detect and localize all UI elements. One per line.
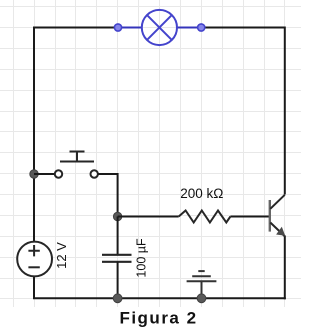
- plus sign: [28, 245, 39, 256]
- svg-text:Figura 2: Figura 2: [119, 309, 197, 328]
- svg-text:12 V: 12 V: [54, 242, 69, 269]
- wire: button right contact to capacitor branch corner: [98, 174, 118, 217]
- top plate: [102, 254, 132, 256]
- junction: left wire / push button tap: [30, 170, 38, 178]
- capacitor C1: [102, 217, 132, 299]
- push button switch SW1: [55, 152, 98, 178]
- voltage source V1 (12 V): [17, 242, 52, 277]
- ground: [187, 271, 217, 298]
- base bar: [269, 200, 271, 232]
- lamp lead wires (blue): [118, 27, 201, 29]
- wire: resistor to transistor base: [230, 216, 269, 218]
- bottom plate: [102, 261, 132, 263]
- wire: top-right segment: [201, 27, 285, 29]
- node: lamp left terminal (blue dot): [114, 24, 121, 31]
- wire: top-left segment: [34, 27, 118, 29]
- wire: bottom segment: [33, 297, 286, 299]
- wire: junction to top plate: [117, 217, 119, 255]
- junction: ground on bottom rail: [197, 294, 206, 303]
- wire: left vertical upper (top corner to battery): [33, 27, 35, 242]
- wire: right vertical upper (top corner to collector): [284, 27, 286, 195]
- emitter arrowhead: [276, 227, 285, 236]
- resistor R1 (zigzag): [179, 211, 231, 223]
- node: lamp right terminal (blue dot): [198, 24, 205, 31]
- wire: left vertical lower (battery to bottom): [33, 276, 35, 298]
- wire: junction to button left contact: [34, 173, 55, 175]
- junction: capacitor bottom on bottom rail: [113, 294, 122, 303]
- transistor Q1 (NPN): [270, 195, 285, 237]
- wire: bottom plate to bottom rail: [117, 262, 119, 299]
- lamp: [142, 10, 177, 45]
- junction: capacitor top / base wire: [113, 212, 121, 220]
- svg-text:200 kΩ: 200 kΩ: [180, 186, 223, 201]
- emitter lead: [270, 223, 285, 237]
- wire: right vertical lower (emitter to bottom): [284, 236, 286, 300]
- wire: base wire (junction to resistor): [118, 216, 179, 218]
- minus sign: [28, 266, 39, 268]
- collector lead: [270, 195, 285, 209]
- svg-text:100 µF: 100 µF: [134, 238, 148, 278]
